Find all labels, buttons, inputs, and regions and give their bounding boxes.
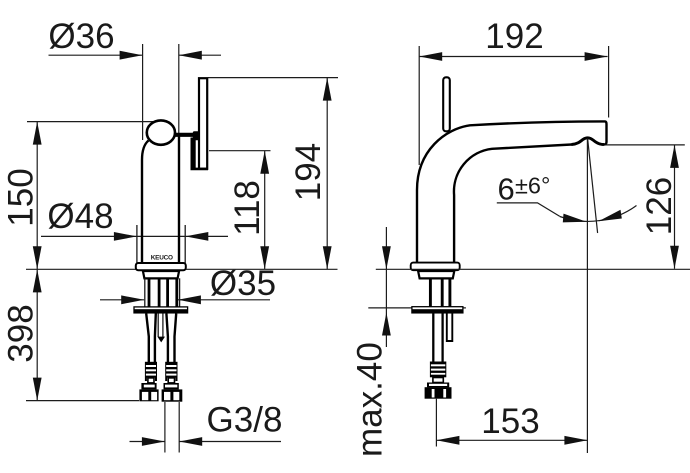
shank inner line 4 [175,278,178,307]
dimension Ø36 arrow right [179,51,202,60]
dimension 192 arrow right [585,52,608,61]
dimension Ø48 arrow right [185,232,208,241]
side hose nut [425,387,452,399]
dimension Ø36 arrow left [120,51,143,60]
dimension 398 arrow down [33,378,42,401]
right hose ribs [165,362,177,383]
left hose ribs [145,362,157,383]
angle arrow left [563,214,587,223]
svg-text:Ø36: Ø36 [48,17,114,56]
counter line front right [186,268,338,270]
shank tube left thin [144,278,146,307]
extension line 150 top [27,121,154,123]
shank collar front [143,271,179,278]
svg-text:KEUCO: KEUCO [151,254,173,261]
angle arc [560,206,637,222]
lever blade front [199,78,207,169]
dimension 153 arrow left [436,436,459,445]
base flange side [411,263,460,271]
left hose nut [139,389,158,401]
side tube line 1 [429,278,432,306]
angle arrow right [599,210,622,221]
svg-text:194: 194 [289,143,328,201]
dimension 153 arrow right [564,436,587,445]
dimension 150 line [36,122,38,270]
left hose nut cap [141,383,156,389]
dimension max.40 arrow top [382,246,391,269]
shank collar side [418,271,454,278]
extension line 398 bottom [26,400,139,402]
collar left edge [136,225,138,263]
svg-text:max.40: max.40 [351,342,390,457]
dimension Ø36 line right tail [179,54,221,56]
dimension 192 line [419,56,607,58]
left hose front [146,314,149,363]
right hose nut [162,389,183,401]
shank inner line 3 [166,278,169,307]
dimension G3/8 arrow left [142,437,165,446]
dimension 398 arrow up [33,269,42,292]
dimension Ø36 line left tail [49,54,143,56]
dimension Ø35 line left tail [100,299,144,301]
counter line front left [26,268,136,270]
dimension 118 arrow up [260,151,269,174]
center stud [157,314,159,338]
extension line G3/8 right [178,402,180,453]
lever blade side [443,77,450,131]
spout bump accent [572,138,604,145]
lever joint [193,131,200,140]
svg-text:±6°: ±6° [515,173,550,199]
dimension max.40 line [385,227,387,347]
dimension 194 arrow down [323,246,332,269]
svg-text:Ø48: Ø48 [47,197,113,236]
spout outline [417,121,607,263]
dimension 118 arrow down [260,246,269,269]
dimension 398 line [36,269,38,400]
lever cover bar [191,138,196,170]
dimension 153 line [436,439,587,441]
extension line 194 top [208,77,338,79]
svg-text:118: 118 [228,180,267,236]
side hose nut cap [427,383,449,388]
dimension 118 line [264,151,266,270]
angle leader line [497,203,560,217]
shank inner line 1 [148,278,151,307]
side hose tube [432,314,434,362]
right hose front [166,314,168,363]
extension line 118 top [209,150,271,152]
lever arm [175,133,198,137]
svg-text:126: 126 [640,177,679,235]
dimension Ø35 arrow right [178,295,201,304]
shank tube right thin [179,278,181,307]
extension line Ø36 right [178,44,180,135]
collar right edge [184,225,186,263]
dimension Ø35 line right tail [178,299,270,301]
svg-text:G3/8: G3/8 [207,401,283,440]
shank inner line 2 [158,278,161,307]
mounting washer side [412,307,463,313]
svg-text:192: 192 [485,17,543,56]
dimension 150 arrow up [33,122,42,145]
faucet body right edge [178,134,180,263]
extension line 192 left [418,46,420,165]
side bracket [447,314,453,342]
dimension Ø35 arrow left [121,295,144,304]
dimension G3/8 line right tail [179,441,281,443]
jet direction line [588,139,598,234]
faucet body left edge [142,141,149,264]
extension line 126 top [606,144,685,146]
dimension 126 arrow down [670,246,679,269]
extension line G3/8 left [164,402,166,453]
svg-text:150: 150 [2,168,41,226]
right hose nut cap [164,383,179,389]
dimension G3/8 arrow right [179,437,202,446]
base flange front [136,263,186,270]
dimension 150 arrow down [33,246,42,269]
dimension Ø48 arrow left [114,232,137,241]
dimension G3/8 line left tail [130,441,165,443]
lever bottom edge [191,168,209,171]
side hose ribs [430,362,446,383]
dimension Ø48 line [41,235,228,237]
side tube line 2 [441,278,444,306]
dimension 126 arrow up [670,145,679,168]
svg-text:Ø35: Ø35 [210,264,276,303]
counter line side [376,268,690,270]
extension line Ø36 left [142,44,144,140]
angle reference vertical line [586,139,588,454]
dimension 192 arrow left [419,52,442,61]
extension line 192 right [608,46,610,118]
dimension 126 line [674,145,676,269]
mounting washer front [134,307,188,313]
svg-text:6: 6 [498,171,515,206]
dimension 194 arrow up [323,78,332,101]
dimension 194 line [326,78,328,270]
extension line 153 left [435,399,437,447]
svg-text:153: 153 [481,402,539,441]
svg-text:398: 398 [2,304,41,362]
dimension max.40 arrow bottom [382,313,391,336]
washer line side (max40 lower reference) [368,307,466,309]
side tube line 3 [448,278,451,306]
pivot circle [147,120,175,144]
